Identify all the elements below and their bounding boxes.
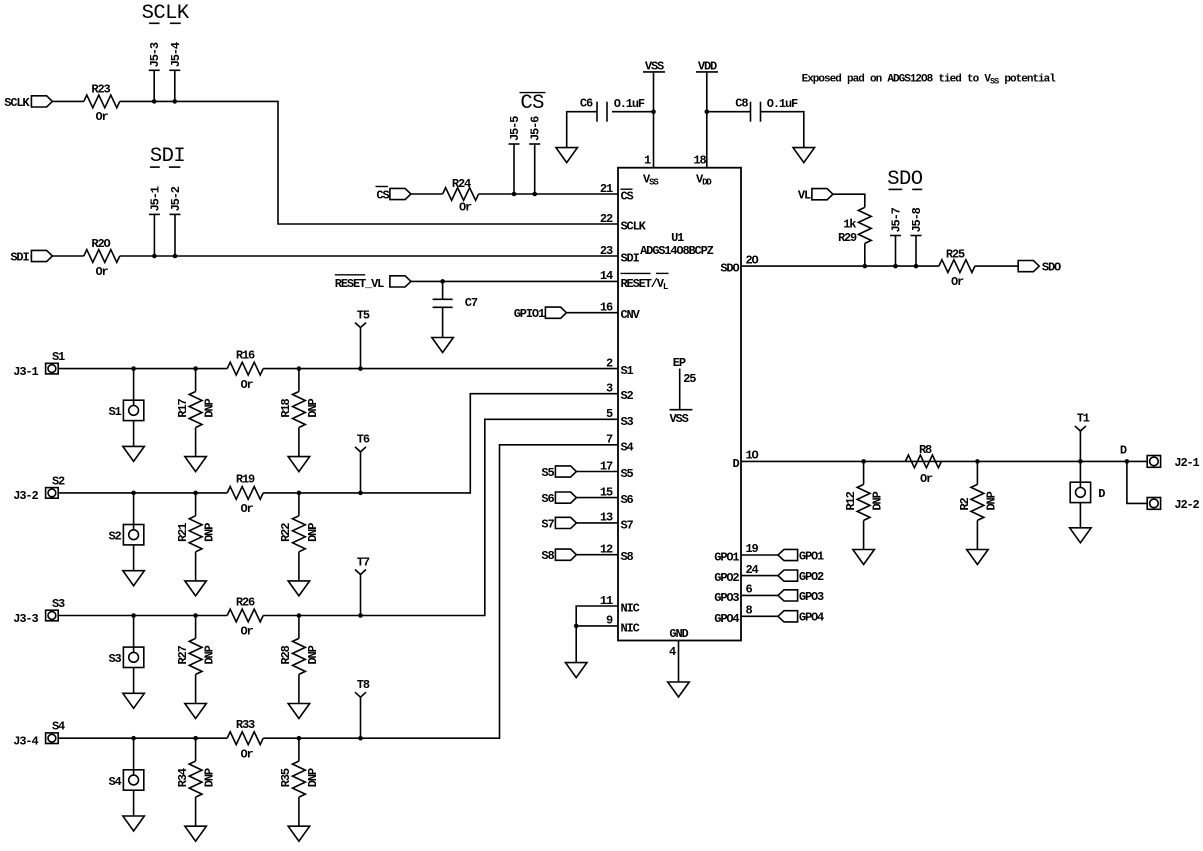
svg-text:DNP: DNP (871, 491, 885, 510)
switch S1 (123, 400, 143, 420)
svg-text:R21: R21 (176, 523, 190, 542)
svg-text:CS: CS (621, 190, 634, 204)
connector pad J2-2 (1147, 498, 1160, 510)
svg-text:R2O: R2O (91, 237, 110, 251)
wire T5 drop (360, 328, 362, 369)
wire R18 top (298, 369, 300, 392)
junction S4 switch (131, 736, 136, 741)
RESET_VL overline (335, 274, 365, 276)
resistor R26 body (227, 609, 263, 622)
junction SDO J5-8 (914, 264, 919, 269)
junction VDD C8 (705, 109, 710, 114)
ground R12 (853, 550, 875, 565)
svg-text:CNV: CNV (621, 308, 641, 322)
wire SCLK port to R23 (52, 100, 83, 102)
svg-text:S8: S8 (541, 549, 554, 563)
svg-text:S1: S1 (52, 350, 65, 364)
resistor R29 body (858, 207, 871, 243)
svg-text:GND: GND (669, 627, 688, 641)
svg-text:1O: 1O (746, 449, 759, 463)
wire VDD to pin18 (706, 73, 708, 168)
wire S8 to chip (576, 554, 618, 556)
svg-text:T8: T8 (357, 678, 370, 692)
wire GPIO1 to chip (566, 312, 618, 314)
wire C7 top wire (442, 281, 444, 299)
wire T6 drop (360, 452, 362, 493)
svg-text:Or: Or (459, 201, 472, 215)
capacitor C7 body (433, 298, 453, 300)
svg-text:S2: S2 (52, 474, 65, 488)
ground switch S1 (123, 446, 145, 461)
svg-text:SCLK: SCLK (621, 220, 647, 234)
wire CS R24 to chip (479, 193, 618, 195)
wire S3 switch gnd wire (133, 668, 135, 694)
test point T6 (355, 447, 366, 452)
svg-text:19: 19 (746, 542, 759, 556)
wire R34 top (195, 738, 197, 761)
svg-text:Or: Or (240, 378, 253, 392)
junction SCLK J5-4 (173, 99, 178, 104)
junction T7 (358, 613, 363, 618)
svg-text:GPIO1: GPIO1 (514, 307, 545, 321)
svg-text:J5-3: J5-3 (148, 42, 162, 67)
ground R34 (185, 826, 207, 841)
junction R21 (193, 491, 198, 496)
junction T6 (358, 491, 363, 496)
svg-text:Or: Or (95, 265, 108, 279)
svg-text:J3-2: J3-2 (13, 489, 38, 503)
junction NIC (574, 624, 579, 629)
svg-text:R16: R16 (236, 348, 255, 362)
switch S2 (123, 525, 143, 545)
wire row S2 left (58, 492, 227, 494)
svg-text:S1: S1 (108, 405, 121, 419)
svg-text:25: 25 (683, 372, 696, 386)
svg-text:J5-7: J5-7 (890, 207, 904, 232)
resistor R18 body (293, 392, 306, 428)
wire row S2 right (263, 394, 618, 493)
resistor R12 body (857, 484, 870, 520)
wire R27 top (195, 616, 197, 639)
wire row S1 right (263, 368, 618, 370)
wire C8 right wire to gnd (761, 112, 804, 148)
svg-text:CS: CS (520, 92, 544, 115)
junction D J2 branch (1125, 459, 1130, 464)
resistor R17 body (189, 392, 202, 428)
svg-text:DNP: DNP (306, 398, 320, 417)
wire D to J2-2 (1127, 461, 1147, 503)
svg-text:J5-8: J5-8 (910, 207, 924, 232)
ground C7 (432, 338, 454, 353)
ground C6 (556, 148, 578, 163)
svg-text:EP: EP (673, 356, 686, 370)
svg-text:S6: S6 (541, 492, 554, 506)
wire S2 switch gnd wire (133, 545, 135, 571)
wire R21 bottom (195, 552, 197, 581)
svg-text:VL: VL (798, 189, 811, 203)
jumper J5-1 (153, 214, 155, 256)
ground R22 (288, 581, 310, 596)
svg-text:SDO: SDO (1042, 261, 1061, 275)
wire SCLK R23 to corner (120, 101, 618, 224)
svg-text:2O: 2O (746, 253, 759, 267)
ground GND pin (668, 682, 690, 697)
op-amp U1 ADGS1408BCPZ body (618, 168, 741, 641)
wire CS port to R24 (411, 193, 443, 195)
svg-text:21: 21 (600, 182, 613, 196)
svg-text:RESET/VL: RESET/VL (621, 277, 668, 292)
junction R17 (193, 366, 198, 371)
resistor R8 body (905, 455, 941, 468)
svg-text:R33: R33 (236, 718, 255, 732)
svg-text:R23: R23 (91, 82, 110, 96)
ground R17 (185, 457, 207, 472)
svg-text:22: 22 (600, 212, 613, 226)
svg-text:J5-4: J5-4 (169, 42, 183, 67)
resistor R16 body (227, 362, 263, 375)
switch S4 (123, 770, 143, 790)
port flag S5 input port (555, 466, 576, 477)
port flag GPO2 output port (778, 570, 798, 581)
port flag GPO4 output port (778, 611, 798, 622)
svg-text:CS: CS (376, 188, 389, 202)
svg-text:DNP: DNP (203, 398, 217, 417)
svg-text:18: 18 (693, 154, 706, 168)
svg-text:GPO4: GPO4 (799, 611, 824, 625)
svg-text:R17: R17 (176, 398, 190, 417)
junction T5 (358, 366, 363, 371)
junction CS J5-6 (532, 192, 537, 197)
svg-text:S3: S3 (621, 415, 634, 429)
ground R27 (185, 704, 207, 719)
junction SDO R29 (863, 264, 868, 269)
wire R21 top (195, 493, 197, 516)
junction VSS C6 (651, 109, 656, 114)
svg-text:S4: S4 (108, 775, 121, 789)
wire GND pin stub (678, 641, 680, 683)
svg-text:1k: 1k (843, 217, 856, 231)
wire R17 top (195, 369, 197, 392)
svg-text:GPO1: GPO1 (799, 549, 824, 563)
resistor R21 body (189, 516, 202, 552)
wire VSS to pin1 (653, 73, 655, 168)
wire R2 top (976, 461, 978, 484)
wire row S1 left (58, 368, 227, 370)
svg-text:RESET_VL: RESET_VL (335, 277, 384, 291)
port flag S7 input port (555, 517, 576, 528)
wire R27 bottom (195, 674, 197, 703)
resistor R2 body (971, 484, 984, 520)
ground switch S2 (123, 571, 145, 586)
connector pad J3-1 (46, 363, 59, 374)
svg-text:DNP: DNP (203, 523, 217, 542)
junction R34 (193, 736, 198, 741)
svg-text:SDI: SDI (621, 252, 640, 266)
svg-text:R27: R27 (176, 645, 190, 664)
wire R35 bottom (298, 797, 300, 826)
ground R18 (288, 457, 310, 472)
svg-text:S5: S5 (621, 467, 634, 481)
junction T8 (358, 736, 363, 741)
svg-text:Or: Or (240, 747, 253, 761)
wire S7 to chip (576, 522, 618, 524)
switch S3 (123, 647, 143, 667)
svg-text:SCLK: SCLK (142, 2, 190, 25)
svg-text:S7: S7 (621, 518, 634, 532)
svg-text:O.1uF: O.1uF (614, 97, 645, 111)
jumper J5-2 (174, 214, 176, 256)
junction R18 (297, 366, 302, 371)
test point T8 (355, 692, 366, 697)
svg-text:DNP: DNP (306, 523, 320, 542)
svg-text:R35: R35 (279, 768, 293, 787)
resistor R35 body (293, 761, 306, 797)
resistor R33 body (227, 732, 263, 745)
svg-text:T6: T6 (357, 433, 370, 447)
svg-text:VSS: VSS (670, 412, 689, 426)
junction R22 (297, 491, 302, 496)
svg-text:C7: C7 (465, 296, 478, 310)
wire S1 switch drop (133, 369, 135, 401)
wire S6 to chip (576, 497, 618, 499)
ground R35 (288, 826, 310, 841)
test point T1 (1075, 426, 1086, 431)
svg-text:S8: S8 (621, 550, 634, 564)
svg-text:R29: R29 (838, 231, 857, 245)
svg-text:ADGS14O8BCPZ: ADGS14O8BCPZ (640, 244, 714, 258)
switch D (1070, 482, 1090, 502)
junction D T1 (1078, 459, 1083, 464)
wire C8 left wire (707, 111, 750, 113)
ground C8 (793, 148, 815, 163)
wire C6 right wire (612, 111, 654, 113)
svg-text:J2-2: J2-2 (1174, 498, 1199, 512)
wire SDO chip to R25 (741, 265, 939, 267)
svg-text:4: 4 (669, 645, 676, 659)
wire R34 bottom (195, 797, 197, 826)
wire S1 switch gnd wire (133, 421, 135, 447)
svg-text:DNP: DNP (203, 768, 217, 787)
svg-text:GPO4: GPO4 (714, 612, 739, 626)
connector pad J2-1 (1147, 456, 1160, 468)
jumper J5-4 (174, 70, 176, 101)
wire NIC pin 11 (576, 606, 618, 663)
resistor R22 body (293, 516, 306, 552)
wire GPO1 chip to flag (741, 554, 778, 556)
wire R2 bottom (976, 520, 978, 549)
svg-text:6: 6 (746, 583, 753, 597)
ground switch D (1070, 528, 1092, 543)
svg-text:14: 14 (600, 269, 613, 283)
capacitor C8 body (750, 102, 752, 122)
wire S3 switch drop (133, 616, 135, 648)
svg-text:T5: T5 (357, 308, 370, 322)
wire GPO2 chip to flag (741, 575, 778, 577)
wire row S3 left (58, 615, 227, 617)
svg-text:R12: R12 (844, 491, 858, 510)
port flag SCLK input port (31, 96, 52, 107)
svg-text:Or: Or (240, 502, 253, 516)
svg-text:NIC: NIC (621, 621, 640, 635)
svg-text:U1: U1 (671, 231, 684, 245)
wire R12 top (863, 461, 865, 484)
svg-text:S4: S4 (621, 440, 634, 454)
port flag CS input port (390, 188, 411, 199)
wire R25 to SDO port (975, 265, 1018, 267)
svg-text:GPO3: GPO3 (799, 590, 824, 604)
junction RESET_VL C7 (440, 279, 445, 284)
svg-text:S3: S3 (108, 652, 121, 666)
wire SDI R20 to chip (120, 255, 618, 257)
svg-text:GPO2: GPO2 (714, 571, 739, 585)
wire T1 to D wire (1079, 431, 1081, 461)
svg-text:D: D (1098, 487, 1105, 501)
svg-text:S4: S4 (52, 720, 65, 734)
wire R29 to SDO wire (864, 243, 866, 266)
svg-text:S3: S3 (52, 597, 65, 611)
port flag S8 input port (555, 549, 576, 560)
port flag RESET_VL input port (390, 276, 411, 287)
svg-text:SDO: SDO (720, 262, 739, 276)
svg-text:Or: Or (920, 472, 933, 486)
connector pad J3-3 (46, 610, 59, 621)
port flag SDO output port (1018, 261, 1039, 272)
svg-text:S5: S5 (541, 466, 554, 480)
svg-text:J5-1: J5-1 (148, 186, 162, 211)
junction SDI J5-2 (173, 254, 178, 259)
resistor R28 body (293, 638, 306, 674)
svg-text:NIC: NIC (621, 602, 640, 616)
svg-text:S6: S6 (621, 493, 634, 507)
svg-text:R25: R25 (946, 247, 965, 261)
resistor R23 body (84, 95, 120, 108)
svg-text:GPO1: GPO1 (714, 551, 739, 565)
resistor R19 body (227, 487, 263, 500)
svg-text:S2: S2 (621, 389, 634, 403)
wire R35 top (298, 738, 300, 761)
svg-text:R19: R19 (236, 473, 255, 487)
svg-text:23: 23 (600, 244, 613, 258)
wire C6 left wire to gnd (567, 112, 597, 148)
svg-text:J5-6: J5-6 (529, 116, 543, 141)
port flag S6 input port (555, 492, 576, 503)
junction SDI J5-1 (152, 254, 157, 259)
junction R35 (297, 736, 302, 741)
svg-text:R28: R28 (279, 645, 293, 664)
connector pad J3-4 (46, 733, 59, 744)
svg-text:D: D (732, 457, 739, 471)
svg-text:SDI: SDI (150, 145, 185, 168)
junction S3 switch (131, 613, 136, 618)
junction R27 (193, 613, 198, 618)
svg-text:DNP: DNP (306, 768, 320, 787)
svg-text:Or: Or (951, 275, 964, 289)
junction S1 switch (131, 366, 136, 371)
svg-text:S2: S2 (108, 530, 121, 544)
port flag GPIO1 input port (545, 307, 566, 318)
junction CS J5-5 (512, 192, 517, 197)
ground R28 (288, 704, 310, 719)
resistor R25 body (939, 260, 975, 273)
svg-text:SDO: SDO (887, 168, 923, 191)
svg-text:J5-2: J5-2 (169, 186, 183, 211)
svg-text:1: 1 (644, 154, 651, 168)
wire R28 top (298, 616, 300, 639)
svg-text:GPO2: GPO2 (799, 570, 824, 584)
wire T1 junction to switch (1079, 461, 1081, 482)
jumper J5-6 (534, 144, 536, 194)
ground R21 (185, 581, 207, 596)
junction D R12 (861, 459, 866, 464)
test point T5 (355, 323, 366, 328)
resistor R24 body (443, 188, 479, 201)
wire GPO3 chip to flag (741, 594, 778, 596)
svg-text:R26: R26 (236, 595, 255, 609)
svg-text:16: 16 (600, 301, 613, 315)
ground NIC (565, 663, 587, 678)
wire switch D to gnd (1079, 503, 1081, 528)
port flag VL input port (812, 189, 833, 200)
wire S4 switch drop (133, 738, 135, 770)
wire row S4 right (263, 445, 618, 738)
wire R28 bottom (298, 674, 300, 703)
wire S4 switch gnd wire (133, 790, 135, 816)
CS port text overline (376, 186, 389, 188)
wire R17 bottom (195, 428, 197, 457)
svg-text:R24: R24 (452, 177, 471, 191)
svg-text:DNP: DNP (203, 645, 217, 664)
svg-text:J5-5: J5-5 (508, 116, 522, 141)
svg-text:J3-3: J3-3 (13, 612, 38, 626)
wire GPO4 chip to flag (741, 615, 778, 617)
wire NIC pin 9 (576, 625, 618, 627)
svg-text:Exposed pad on ADGS12O8 tied t: Exposed pad on ADGS12O8 tied to VSS pote… (802, 74, 1057, 87)
port flag GPO1 output port (778, 549, 798, 560)
svg-text:DNP: DNP (984, 491, 998, 510)
svg-text:J3-4: J3-4 (13, 735, 38, 749)
ground R2 (967, 550, 989, 565)
junction SDO J5-7 (893, 264, 898, 269)
svg-text:DNP: DNP (306, 645, 320, 664)
svg-text:S7: S7 (541, 517, 554, 531)
resistor R27 body (189, 638, 202, 674)
wire row S3 right (263, 419, 618, 615)
junction SCLK J5-3 (152, 99, 157, 104)
wire RESET_VL to chip (411, 280, 618, 282)
svg-text:S1: S1 (621, 364, 634, 378)
svg-text:GPO3: GPO3 (714, 591, 739, 605)
wire T7 drop (360, 575, 362, 616)
svg-text:T7: T7 (357, 555, 370, 569)
wire S2 switch drop (133, 493, 135, 525)
junction S2 switch (131, 491, 136, 496)
svg-text:R34: R34 (176, 768, 190, 787)
connector pad J3-2 (46, 488, 59, 499)
port flag SDI input port (31, 250, 52, 261)
wire R22 bottom (298, 552, 300, 581)
wire R18 bottom (298, 428, 300, 457)
test point T7 (355, 570, 366, 575)
wire VL to R29 (833, 194, 865, 207)
pin EP line (679, 369, 681, 410)
svg-text:24: 24 (746, 563, 759, 577)
resistor R20 body (84, 250, 120, 263)
svg-text:C8: C8 (735, 97, 748, 111)
svg-text:R22: R22 (279, 523, 293, 542)
svg-text:R2: R2 (958, 497, 972, 510)
svg-text:C6: C6 (580, 97, 593, 111)
wire R12 bottom (863, 520, 865, 549)
